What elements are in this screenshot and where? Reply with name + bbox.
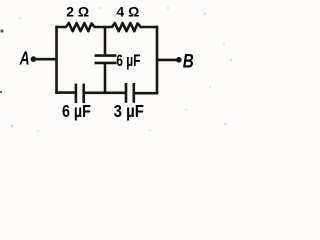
svg-text:6 µF: 6 µF xyxy=(62,103,91,122)
svg-text:3 µF: 3 µF xyxy=(114,102,144,121)
svg-text:2 Ω: 2 Ω xyxy=(66,4,89,20)
svg-text:B: B xyxy=(183,49,194,71)
svg-text:6 µF: 6 µF xyxy=(116,52,140,70)
svg-text:4 Ω: 4 Ω xyxy=(116,4,139,20)
svg-text:A: A xyxy=(19,49,30,70)
